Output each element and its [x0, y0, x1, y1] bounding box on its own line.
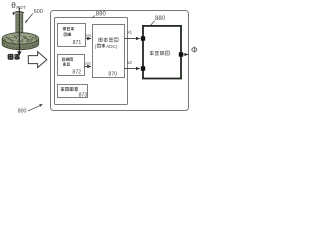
wire sa1	[86, 38, 92, 40]
svg-text:ROT: ROT	[16, 5, 26, 10]
rotation arc arrow	[13, 12, 24, 14]
svg-text:800: 800	[18, 109, 27, 115]
wire sa2	[85, 66, 92, 68]
wire x2	[125, 68, 140, 70]
axis arrow through magnet	[18, 8, 20, 53]
svg-text:600: 600	[34, 9, 43, 15]
magnet shaft 600	[16, 12, 23, 34]
outer package rect 800	[51, 11, 189, 111]
svg-text:ADC): ADC)	[106, 44, 118, 49]
label magnet (cjk)	[8, 54, 14, 60]
svg-text:871: 871	[73, 40, 82, 46]
svg-text:870: 870	[108, 71, 117, 77]
box 880 processing circuit (thick)	[143, 26, 181, 79]
svg-text:x2: x2	[127, 60, 132, 65]
box 871 sensor element	[58, 24, 86, 47]
svg-text:890: 890	[96, 11, 107, 17]
box 873	[58, 85, 88, 98]
box 870 readout circuit	[93, 25, 125, 78]
pin 2	[141, 66, 145, 70]
magnet disc	[2, 33, 39, 50]
svg-text:sa1: sa1	[86, 34, 92, 38]
speckles on magnet	[3, 35, 37, 49]
box 872 sensor element	[58, 55, 85, 76]
sensor die rect 890	[55, 18, 128, 105]
svg-text:x1: x1	[127, 30, 132, 35]
block arrow	[28, 52, 47, 68]
svg-text:sa2: sa2	[85, 61, 91, 65]
wire x1	[125, 38, 140, 40]
pin 1	[141, 36, 145, 40]
svg-text:880: 880	[155, 16, 166, 22]
svg-text:873: 873	[79, 92, 88, 98]
svg-text:Φ: Φ	[191, 44, 198, 54]
svg-text:872: 872	[72, 69, 81, 75]
wire phi out	[183, 54, 188, 56]
pin out	[179, 52, 183, 56]
